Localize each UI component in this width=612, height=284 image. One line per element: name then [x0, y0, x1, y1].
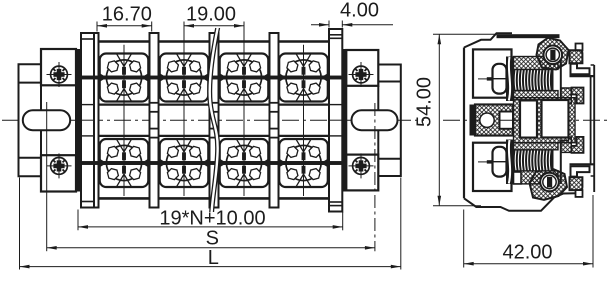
dimension 19*N+10.00 [77, 210, 79, 231]
top rail lip [571, 64, 590, 74]
white pocket below washer [514, 172, 522, 184]
hatch band below lower screw [514, 171, 559, 184]
upper screw chamber [473, 49, 512, 97]
left end black plate [77, 49, 81, 192]
screw S1 left bracket [47, 62, 72, 87]
break line [208, 28, 220, 212]
screw S3 right bracket [349, 62, 374, 87]
screw S4 right bracket [349, 153, 374, 178]
bottom claw [572, 137, 584, 153]
central cavity B [542, 100, 569, 138]
side body bottom outline [464, 193, 576, 211]
dimension L [19, 178, 21, 270]
side body left edge [463, 48, 465, 199]
clamp bar upper row [77, 76, 343, 80]
svg-text:19*N+10.00: 19*N+10.00 [159, 207, 265, 229]
upper cavity wall [560, 57, 562, 100]
lower screw washer [506, 140, 514, 185]
right bracket web [345, 86, 347, 155]
centerline horizontal front view [2, 119, 424, 121]
hatch band above upper screw [514, 57, 559, 70]
hatch band below upper screw [514, 91, 559, 100]
lower screw chamber [473, 143, 512, 191]
central cavity A [520, 100, 537, 137]
dimension 19.00 [183, 22, 185, 48]
right end plate 4mm [329, 29, 342, 212]
top claw [572, 88, 584, 104]
terminal cell T4 [274, 46, 334, 110]
bottom hook hatched block [570, 177, 583, 190]
upper screw head [493, 64, 507, 94]
right bracket outline [378, 65, 401, 177]
mounting ear section [475, 105, 513, 136]
lower cavity wall [560, 141, 562, 184]
hatch mid web [514, 98, 576, 143]
lower screw head [493, 147, 507, 177]
left bracket outline [19, 64, 42, 176]
left bracket bottom plate [41, 155, 76, 191]
DIN rail profile [593, 65, 595, 192]
terminal cell T1 [94, 46, 154, 110]
hatch below bottom claw [561, 137, 572, 153]
wire body bottom edge [81, 197, 343, 200]
terminal cell T5 [94, 131, 154, 195]
terminal cell T7 [214, 131, 274, 195]
lower screw threads [514, 150, 554, 171]
svg-text:4.00: 4.00 [340, 0, 379, 22]
node column centerline C [243, 22, 245, 197]
wire rail segments across left end plate [81, 104, 94, 106]
bottom rail lip [571, 166, 590, 176]
wire body top edge [81, 40, 343, 43]
svg-text:54.00: 54.00 [414, 77, 436, 127]
hatch above top claw [561, 88, 572, 104]
left bracket top plate [41, 49, 76, 85]
bottom clamp lobe [530, 169, 568, 200]
terminal cell T6 [154, 131, 214, 195]
separator wall W1 [150, 33, 159, 208]
upper screw washer [506, 57, 514, 102]
top clamp lobe [537, 38, 569, 70]
svg-text:19.00: 19.00 [186, 4, 236, 26]
svg-text:42.00: 42.00 [502, 241, 552, 263]
side body top edge thick [497, 34, 560, 38]
svg-text:16.70: 16.70 [102, 4, 152, 26]
left bracket web [40, 85, 42, 155]
right mounting slot [352, 110, 398, 130]
terminal cell T2 [154, 46, 214, 110]
right bracket bottom plate [346, 155, 378, 191]
dimension 42.00 [463, 210, 465, 268]
node slot centerline left [46, 102, 48, 139]
separator wall W2 [210, 33, 219, 208]
terminal cell T3 [214, 46, 274, 110]
clamp bar lower row [77, 161, 343, 165]
dimension 4.00 [328, 21, 330, 28]
dimension S [46, 139, 48, 252]
side body top-left outline [464, 33, 512, 47]
top hook hatched block [570, 50, 583, 63]
upper screw threads [514, 69, 554, 90]
svg-text:L: L [208, 247, 219, 269]
right bracket top plate [346, 50, 378, 86]
wire upper rail [81, 103, 343, 105]
wire rail segments across right end plate [329, 104, 342, 106]
dimension 54.00 [433, 33, 495, 35]
left wall plate [94, 33, 99, 208]
left mounting slot [23, 110, 70, 130]
screw S2 left bracket [47, 153, 72, 178]
hatch band above lower screw [514, 143, 559, 150]
node column centerline B [183, 22, 185, 197]
side view centerline [443, 119, 608, 121]
node column centerline A [123, 45, 125, 196]
terminal cell T8 [274, 131, 334, 195]
top hook back plate [576, 44, 583, 51]
dimension 16.70 [96, 22, 98, 32]
node column centerline D [303, 45, 305, 196]
wire lower rail [81, 135, 343, 137]
separator wall W3 [270, 33, 279, 208]
left end plate 4mm [81, 33, 94, 208]
right end black plate [342, 49, 346, 192]
bottom hook back plate [576, 190, 583, 197]
